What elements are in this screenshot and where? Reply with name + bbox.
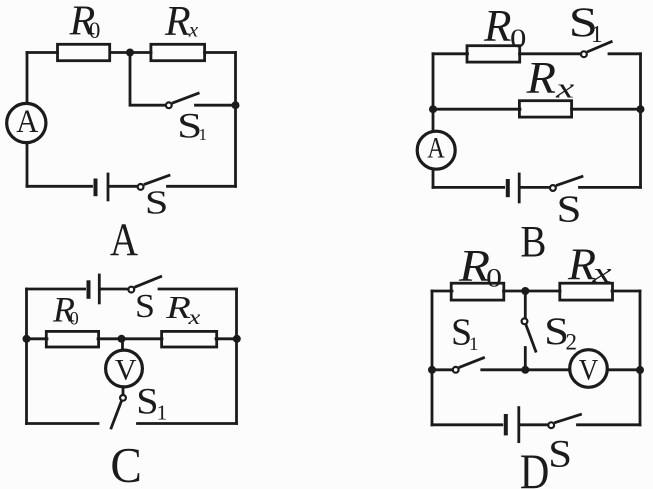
svg-text:C: C bbox=[110, 437, 141, 489]
svg-text:V: V bbox=[579, 354, 599, 387]
svg-text:A: A bbox=[110, 214, 138, 266]
svg-text:0: 0 bbox=[89, 18, 101, 43]
svg-text:1: 1 bbox=[469, 334, 479, 355]
svg-text:S: S bbox=[548, 433, 572, 476]
svg-text:x: x bbox=[187, 305, 201, 329]
svg-text:1: 1 bbox=[199, 125, 208, 144]
svg-text:R: R bbox=[483, 1, 512, 51]
svg-text:x: x bbox=[591, 258, 612, 289]
svg-text:S: S bbox=[145, 184, 169, 221]
svg-text:1: 1 bbox=[157, 401, 168, 425]
svg-text:2: 2 bbox=[566, 330, 578, 355]
svg-text:0: 0 bbox=[70, 310, 79, 330]
svg-text:A: A bbox=[427, 132, 445, 165]
svg-text:V: V bbox=[115, 353, 137, 386]
svg-text:x: x bbox=[555, 72, 575, 104]
svg-text:A: A bbox=[16, 104, 38, 140]
svg-text:B: B bbox=[520, 217, 546, 266]
svg-text:x: x bbox=[188, 18, 199, 42]
svg-text:D: D bbox=[520, 443, 549, 489]
svg-text:0: 0 bbox=[486, 263, 502, 292]
svg-text:1: 1 bbox=[591, 22, 603, 48]
svg-text:0: 0 bbox=[510, 24, 526, 53]
svg-text:R: R bbox=[164, 0, 191, 45]
svg-text:R: R bbox=[165, 289, 191, 325]
svg-text:S: S bbox=[136, 382, 158, 423]
svg-text:R: R bbox=[526, 53, 556, 103]
svg-text:S: S bbox=[557, 188, 582, 230]
svg-text:S: S bbox=[135, 288, 155, 325]
